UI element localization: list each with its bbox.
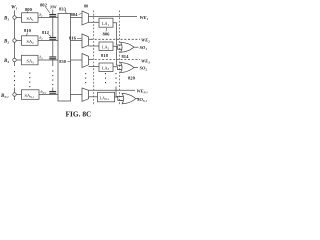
wire mux M2 bottom out to LA2	[89, 45, 100, 47]
svg-text:NW: NW	[49, 4, 57, 9]
wire SA3 to block 830	[38, 59, 58, 61]
wire from ellipsis down to gate G3	[116, 87, 122, 97]
wire block to mux row1	[71, 17, 83, 19]
svg-text:FIG. 8C: FIG. 8C	[66, 109, 92, 118]
or-gate G3 (820)	[122, 93, 136, 103]
wire block to mux row n-1	[71, 94, 83, 96]
leader 810	[27, 33, 28, 36]
latch LA2	[99, 42, 113, 51]
svg-text:806: 806	[103, 32, 111, 37]
svg-text:B1: B1	[3, 17, 9, 22]
svg-text:LA3: LA3	[102, 65, 110, 71]
or-gate G1 (814)	[121, 42, 134, 52]
gate G1 input stubs	[119, 44, 122, 46]
svg-text:810: 810	[24, 28, 32, 33]
wire block to mux row3	[71, 59, 83, 61]
svg-text:833: 833	[59, 6, 67, 11]
sense amp SA2	[22, 36, 39, 46]
wire Bn-1 to SAn-1	[16, 94, 21, 96]
or-gate G2	[121, 63, 134, 73]
wire LAn-1 out to gate G3 lower input	[115, 97, 123, 100]
wire mux Mn-1 top out (WEn-1)	[89, 89, 136, 91]
capacitor Cn-1 plates	[49, 91, 56, 94]
svg-text:SA2: SA2	[27, 39, 35, 45]
svg-text:820: 820	[128, 76, 136, 81]
wire W1 vertical line	[14, 10, 16, 66]
wire block to mux row2	[71, 40, 83, 42]
wire mux M3 bottom out to LA3	[89, 66, 100, 68]
leader 812	[49, 35, 52, 37]
wire W1 vertical lower	[14, 88, 16, 101]
wire LA1 out to gate G1	[113, 23, 121, 45]
wire mux M1 top out (WE1)	[89, 16, 138, 18]
leader 804	[79, 14, 82, 15]
node Bn-1 terminal circle	[13, 93, 16, 96]
wire W1 vertical ellipsis	[14, 71, 15, 86]
LA column ellipsis	[105, 73, 106, 83]
wire NW segment below row3	[52, 59, 54, 66]
node B3 terminal circle	[13, 58, 16, 61]
leader 806	[105, 28, 108, 32]
gate G2 input stubs	[119, 64, 122, 66]
wire LA2 tap down to gate G2	[117, 46, 121, 65]
leader 816	[77, 37, 82, 39]
capacitor C3 plates	[49, 56, 56, 59]
capacitor C1 (802) plates	[49, 14, 56, 17]
wire mux M2 top out (WE2 dashed)	[89, 38, 92, 40]
wire NW segment row n-1	[52, 88, 54, 92]
leader 833	[65, 11, 67, 14]
svg-text:LA1: LA1	[102, 21, 110, 27]
wire NW stem row1	[52, 10, 54, 14]
svg-text:800: 800	[25, 7, 33, 12]
wire B2 to SA2	[16, 40, 21, 42]
mux Mn-1	[82, 88, 89, 101]
leader 830	[68, 60, 71, 62]
wire G2 output	[134, 67, 138, 69]
sense amp SA3	[22, 55, 39, 65]
wire mux M3 top out (WE3 dashed)	[89, 58, 92, 60]
mux column ellipsis	[85, 73, 86, 83]
sense amp SA1	[22, 13, 39, 22]
wire G3 output	[136, 98, 139, 100]
wire NW vertical ellipsis	[52, 71, 53, 86]
svg-text:830: 830	[59, 59, 66, 64]
LA out vertical ellipsis	[116, 73, 117, 83]
mux M1 (804)	[82, 11, 89, 25]
svg-text:802: 802	[40, 2, 48, 7]
svg-text:818: 818	[101, 53, 109, 58]
gate G3 input stubs	[120, 95, 124, 97]
mux M3	[82, 54, 89, 68]
wire mux M1 bottom out to LA1	[89, 21, 100, 23]
boundary dashed line left	[93, 11, 95, 106]
wire LA2 out to gate G1 lower input	[113, 46, 121, 49]
wire LA3 out to gate G2 lower input	[113, 67, 121, 70]
node B2 terminal circle	[13, 39, 16, 42]
boundary dashed line right	[119, 11, 121, 106]
wire NW segment rows1-2	[52, 17, 54, 37]
svg-text:LA2: LA2	[102, 45, 110, 51]
svg-text:804: 804	[71, 12, 79, 17]
SA column ellipsis	[29, 73, 30, 88]
latch LAn-1	[98, 92, 115, 102]
wire SA1 to block 830	[38, 17, 58, 19]
wire SA2 to block 830	[38, 40, 58, 42]
node B1 terminal circle	[13, 16, 16, 19]
block 830	[58, 14, 71, 102]
wire B3 to SA3	[16, 59, 21, 61]
capacitor C2 (812) plates	[49, 37, 56, 40]
svg-text:816: 816	[69, 36, 77, 41]
svg-text:SA1: SA1	[27, 16, 35, 22]
latch LA1	[99, 18, 113, 27]
wire SAn-1 to block 830	[39, 94, 58, 96]
svg-text:814: 814	[122, 54, 130, 59]
wire mux Mn-1 bottom out to LAn-1	[89, 96, 98, 98]
svg-text:SA3: SA3	[27, 59, 35, 65]
leader 800	[27, 12, 29, 14]
wire NW segment rows2-3	[52, 40, 54, 57]
leader 802	[46, 7, 51, 13]
latch LA3	[99, 63, 113, 72]
svg-text:80: 80	[84, 4, 88, 9]
svg-text:B3: B3	[3, 59, 9, 64]
sense amp SAn-1	[22, 90, 40, 100]
svg-text:812: 812	[42, 30, 50, 35]
mux M2 (816)	[82, 34, 89, 48]
wire G1 output	[134, 46, 139, 48]
svg-text:B2: B2	[3, 40, 9, 45]
wire B1 to SA1	[16, 17, 21, 19]
